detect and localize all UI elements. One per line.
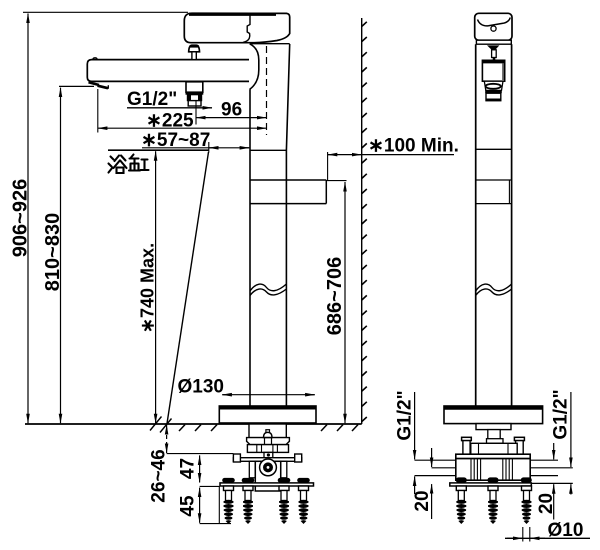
centre stub (side) (487, 430, 504, 444)
dimension 45 (178, 486, 232, 523)
shower hanger funnel (side) (487, 45, 499, 60)
dimension *225 (98, 89, 267, 133)
floor hatching (179, 425, 358, 431)
column (side) (476, 44, 512, 406)
lever handle head (side) (475, 13, 512, 40)
washers (side) (456, 477, 532, 482)
diverter pull knob on spout (189, 45, 200, 59)
column break squiggle (side) (476, 284, 512, 296)
dimension 20 left (412, 448, 433, 519)
dimension Ø10 (505, 520, 590, 542)
bathtub rim line (108, 149, 209, 151)
spout (front) (87, 58, 249, 82)
wall line with hatching (362, 18, 367, 424)
svg-text:∗740 Max.: ∗740 Max. (138, 243, 158, 333)
washers on bracket bar (front) (222, 478, 310, 483)
dimension *57~87 (141, 130, 249, 153)
under-floor shoulder (front) (247, 438, 290, 445)
column seams (side) (476, 149, 512, 203)
column seam (250, 149, 286, 151)
label G1/2" left (supply) (395, 390, 416, 494)
shower outlet end (side) (485, 90, 502, 100)
dimension *740 Max. (138, 151, 158, 423)
under-floor neck (front) (249, 424, 286, 438)
svg-text:∗225: ∗225 (146, 111, 194, 132)
upper block (side) (471, 443, 517, 454)
column top flare (trumpet joint) (250, 44, 259, 89)
column centre dashed line (266, 46, 268, 135)
supply pipe lines left (side) (415, 460, 456, 475)
joint band (side) (476, 40, 511, 44)
side posts (front) (249, 461, 287, 478)
anchor bolt A (side) (456, 486, 466, 524)
floor line (25, 423, 362, 425)
set screw square with dot (front) (264, 452, 273, 457)
svg-text:G1/2": G1/2" (127, 89, 177, 110)
svg-text:G1/2": G1/2" (551, 389, 572, 439)
side studs (462, 437, 525, 454)
aerator lip under spout tip (89, 82, 109, 89)
dimension 47 (178, 455, 200, 482)
dimension 810~830 (42, 86, 94, 423)
anchor bolt 3 (front) (279, 486, 289, 524)
anchor bolt B (side) (488, 486, 498, 524)
svg-text:906~926: 906~926 (10, 179, 32, 257)
svg-text:Ø10: Ø10 (548, 520, 584, 541)
svg-text:20: 20 (412, 490, 433, 511)
svg-text:45: 45 (178, 495, 199, 517)
hand shower head (side) (482, 60, 504, 81)
svg-text:Ø130: Ø130 (178, 376, 224, 397)
dimension 686~706 (324, 181, 347, 424)
svg-text:810~830: 810~830 (42, 213, 64, 291)
mounting block (front) (247, 445, 288, 453)
shower collar with face ellipse (side) (484, 81, 503, 90)
bathtub side wall diagonal (167, 152, 209, 424)
dimension 906~926 (10, 14, 32, 424)
anchor bolt C (side) (522, 486, 532, 524)
column (front) (250, 44, 290, 406)
bracket bar (front) (220, 483, 314, 486)
hand shower bracket band (front) (250, 180, 326, 204)
label G1/2" (spout hose connection) (127, 89, 212, 110)
dimension 20 right (536, 443, 557, 520)
column break squiggle (front) (250, 284, 286, 296)
anchor bolt 1 (front) (224, 486, 234, 524)
svg-text:96: 96 (221, 100, 242, 121)
svg-text:26~46: 26~46 (149, 449, 170, 502)
label bathtub (hanzi 浴缸 drawn) (109, 155, 149, 174)
label G1/2" right (supply) (551, 389, 572, 494)
centre block with supply socket circle (front) (255, 459, 280, 491)
bottom plate (side) (450, 483, 532, 486)
under-floor neck (side) (476, 424, 511, 430)
anchor bolt 4 (front) (299, 486, 309, 524)
supply pipe lines right (side) (530, 460, 573, 483)
dimension Ø130 (178, 376, 315, 397)
svg-text:∗100 Min.: ∗100 Min. (368, 136, 459, 157)
svg-text:∗57~87: ∗57~87 (141, 130, 210, 151)
anchor bolt 2 (front) (243, 486, 253, 524)
dimension 96 (196, 100, 267, 125)
svg-text:47: 47 (178, 458, 199, 479)
svg-text:686~706: 686~706 (324, 257, 346, 335)
main ribbed block (side) (456, 459, 530, 481)
flange band with end tabs (front) (233, 454, 301, 462)
svg-text:20: 20 (536, 493, 557, 514)
svg-text:G1/2": G1/2" (395, 390, 416, 440)
bathtub wall break marks at floor (150, 417, 172, 433)
top extension line (23, 11, 188, 13)
G1/2 hose fitting under spout (186, 82, 204, 106)
centre bolt with dome head (front) (264, 430, 273, 452)
dimension *100 Min. (328, 136, 459, 180)
lever handle with valve body (front) (184, 13, 289, 43)
base plate (front) (219, 406, 316, 423)
crossbar (side) (456, 454, 530, 458)
body/shoulder line under valve body (250, 43, 290, 45)
base plate (side) (444, 406, 543, 424)
dimension 26~46 (149, 425, 234, 503)
